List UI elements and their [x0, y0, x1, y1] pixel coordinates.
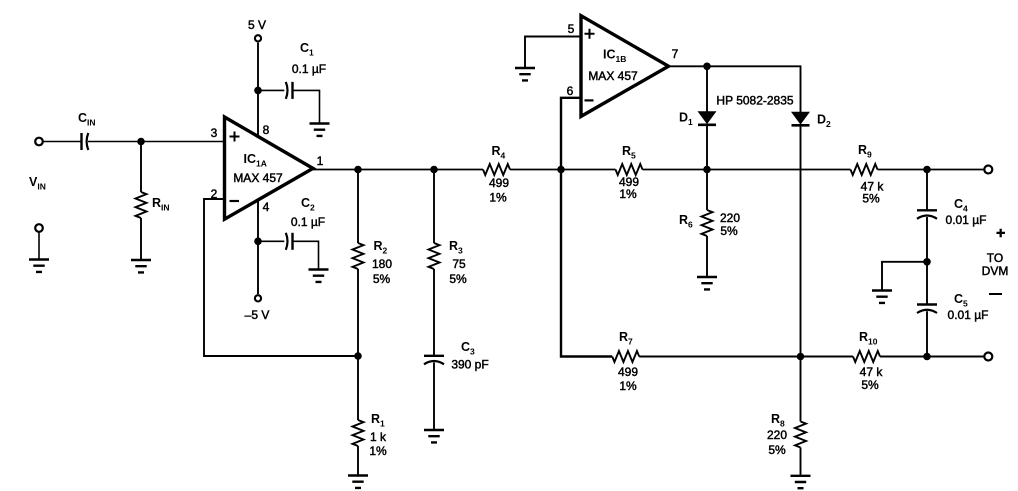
wire pin 5 to ground	[525, 37, 581, 68]
svg-text:R6: R6	[679, 213, 693, 230]
svg-text:47 k: 47 k	[860, 365, 884, 379]
op-amp U2 plus symbol	[585, 29, 595, 39]
diode D2	[792, 112, 810, 125]
resistor R2	[353, 243, 364, 269]
svg-text:220: 220	[720, 211, 740, 225]
svg-text:C3: C3	[461, 340, 475, 357]
op-amp U2 IC1B triangle	[581, 16, 669, 117]
node D1/main line	[703, 166, 711, 174]
wire pin 4 to -5V terminal	[257, 200, 259, 294]
svg-text:1: 1	[317, 154, 324, 168]
wire lower line R7 to R10	[639, 356, 853, 358]
resistor R3	[429, 243, 440, 269]
svg-text:R7: R7	[619, 330, 633, 347]
resistor R4	[483, 164, 510, 175]
wire input to C_IN	[43, 141, 80, 143]
ground below R_IN	[131, 260, 151, 272]
svg-text:1%: 1%	[369, 444, 387, 458]
node C4 top	[923, 166, 931, 174]
svg-text:1%: 1%	[619, 187, 637, 201]
ground below R8	[791, 476, 811, 488]
svg-text:CIN: CIN	[78, 111, 96, 128]
svg-text:3: 3	[211, 126, 218, 140]
svg-text:1%: 1%	[619, 379, 637, 393]
wire node B up to pin 6	[561, 98, 581, 170]
node D2/R8 lower	[797, 353, 805, 361]
node B R4/R5/pin6	[557, 166, 565, 174]
svg-text:R10: R10	[859, 330, 878, 347]
svg-text:DVM: DVM	[982, 264, 1009, 278]
svg-text:R8: R8	[771, 412, 785, 429]
svg-text:C1: C1	[300, 41, 314, 58]
ground below C1	[310, 124, 330, 136]
svg-text:8: 8	[263, 123, 270, 137]
svg-text:390 pF: 390 pF	[451, 358, 488, 372]
wire C5 to lower line	[926, 311, 928, 356]
ground below C2	[309, 270, 329, 282]
svg-text:499: 499	[618, 365, 638, 379]
svg-text:C2: C2	[301, 196, 315, 213]
wire R3 column	[433, 170, 435, 244]
wire R6 to ground	[706, 236, 708, 276]
svg-text:R1: R1	[371, 412, 385, 429]
svg-text:6: 6	[567, 84, 574, 98]
svg-text:4: 4	[263, 200, 270, 214]
wire R10 to output terminal	[880, 356, 984, 358]
wire D2 down crossing main line	[800, 126, 802, 357]
svg-text:R9: R9	[858, 143, 872, 160]
wire R3 to C3	[433, 269, 435, 356]
svg-text:IC1B: IC1B	[603, 48, 626, 65]
ground below R6	[697, 277, 717, 289]
node main/R3	[430, 166, 438, 174]
svg-text:–5 V: –5 V	[245, 308, 270, 322]
ground below J2	[29, 260, 49, 272]
wire R4 to node B	[510, 169, 616, 171]
wire mid node to C5	[926, 262, 928, 305]
svg-text:RIN: RIN	[152, 196, 170, 213]
capacitor C_IN	[82, 133, 89, 150]
node output/D1	[703, 63, 711, 71]
svg-text:5%: 5%	[449, 272, 467, 286]
svg-text:IC1A: IC1A	[244, 152, 267, 169]
wire R1 to ground	[357, 446, 359, 475]
resistor R5	[616, 164, 643, 175]
resistor R9	[851, 164, 878, 175]
wire pin 2 feedback to node A	[204, 199, 358, 356]
wire input node down to R_IN	[140, 142, 142, 193]
capacitor C1	[286, 82, 293, 99]
svg-text:0.1 µF: 0.1 µF	[292, 62, 326, 76]
svg-text:5%: 5%	[373, 272, 391, 286]
svg-text:5%: 5%	[768, 443, 786, 457]
capacitor C5	[917, 305, 937, 314]
node input junction	[137, 138, 145, 146]
wire R9 to output terminal	[878, 169, 985, 171]
diode D1	[698, 112, 716, 125]
svg-text:MAX 457: MAX 457	[588, 69, 638, 83]
op-amp U1 plus symbol	[230, 132, 240, 142]
svg-text:R4: R4	[492, 144, 506, 161]
svg-text:75: 75	[452, 257, 466, 271]
capacitor C2	[286, 233, 293, 250]
svg-text:TO: TO	[987, 251, 1003, 265]
svg-text:HP 5082-2835: HP 5082-2835	[716, 94, 794, 108]
wire node to C1	[258, 89, 284, 91]
wire J2 to ground	[38, 232, 40, 258]
ground at C4/C5 tap	[872, 291, 892, 303]
node main/R2	[354, 166, 362, 174]
wire C4 to mid node	[926, 217, 928, 262]
ground below C3	[424, 430, 444, 442]
wire C2 to ground	[293, 241, 319, 268]
wire node to C2	[258, 240, 284, 242]
terminal output top	[984, 166, 992, 174]
terminal -5V	[255, 295, 261, 301]
svg-text:+: +	[996, 225, 1005, 242]
wire main line U1 out to R4	[313, 169, 483, 171]
resistor R_IN	[136, 192, 147, 218]
node 5V / C1	[254, 87, 262, 95]
wire R2 column	[357, 170, 359, 244]
op-amp U1 IC1A triangle	[225, 117, 314, 219]
wire R5 to R9	[643, 169, 851, 171]
svg-text:D1: D1	[679, 111, 693, 128]
svg-text:R2: R2	[374, 239, 388, 256]
wire 5V to pin 8	[257, 43, 259, 137]
resistor R1	[353, 420, 364, 446]
wire C4 column top	[926, 170, 928, 211]
op-amp U2 minus symbol	[585, 99, 594, 101]
svg-text:5: 5	[568, 22, 575, 36]
wire C_IN to op-amp pin 3	[88, 141, 225, 143]
terminal input ground J2	[35, 224, 43, 232]
svg-text:R3: R3	[449, 239, 463, 256]
node C4/C5 mid	[923, 258, 931, 266]
svg-text:5%: 5%	[720, 224, 738, 238]
wire R2 to node A	[357, 269, 359, 356]
wire U2 output to D2 branch	[669, 66, 801, 112]
svg-text:0.1 µF: 0.1 µF	[291, 215, 325, 229]
resistor R7	[612, 351, 639, 362]
wire node A to R1	[357, 356, 359, 420]
capacitor C3	[424, 356, 444, 365]
terminal output bottom	[984, 353, 992, 361]
label minus polarity	[989, 293, 1002, 295]
svg-text:1 k: 1 k	[370, 430, 387, 444]
node A feedback junction	[354, 352, 362, 360]
wire R_IN to ground	[140, 218, 142, 259]
wire main to R6	[706, 170, 708, 211]
svg-text:R5: R5	[622, 144, 636, 161]
svg-text:VIN: VIN	[29, 175, 46, 192]
svg-text:7: 7	[672, 47, 679, 61]
wire node to D1	[706, 66, 708, 112]
ground below R1	[348, 476, 368, 488]
svg-text:D2: D2	[817, 113, 831, 130]
op-amp U1 minus symbol	[230, 200, 240, 202]
svg-text:499: 499	[489, 176, 509, 190]
wire node B down to lower line	[561, 170, 612, 357]
wire D1 to main line	[706, 125, 708, 170]
resistor R6	[702, 210, 713, 236]
wire R8 to ground	[800, 448, 802, 475]
svg-text:C4: C4	[954, 197, 968, 214]
terminal 5V	[255, 35, 261, 41]
svg-text:0.01 µF: 0.01 µF	[948, 308, 989, 322]
wire mid node to ground tap	[882, 262, 927, 290]
svg-text:5 V: 5 V	[248, 18, 266, 32]
svg-text:5%: 5%	[862, 192, 880, 206]
wire node to R8	[800, 357, 802, 422]
svg-text:220: 220	[767, 428, 787, 442]
resistor R8	[795, 422, 806, 448]
capacitor C4	[917, 210, 937, 219]
wire C3 to ground	[433, 363, 435, 430]
wire C1 to ground	[293, 90, 320, 122]
node -5V / C2	[254, 238, 262, 246]
svg-text:5%: 5%	[861, 378, 879, 392]
terminal input J1	[35, 138, 43, 146]
resistor R10	[853, 351, 880, 362]
svg-text:MAX 457: MAX 457	[233, 171, 283, 185]
svg-text:180: 180	[372, 257, 392, 271]
svg-text:0.01 µF: 0.01 µF	[946, 213, 987, 227]
node C5/lower line	[923, 353, 931, 361]
ground at pin 5	[515, 68, 535, 80]
svg-text:C5: C5	[954, 292, 968, 309]
svg-text:1%: 1%	[489, 191, 507, 205]
